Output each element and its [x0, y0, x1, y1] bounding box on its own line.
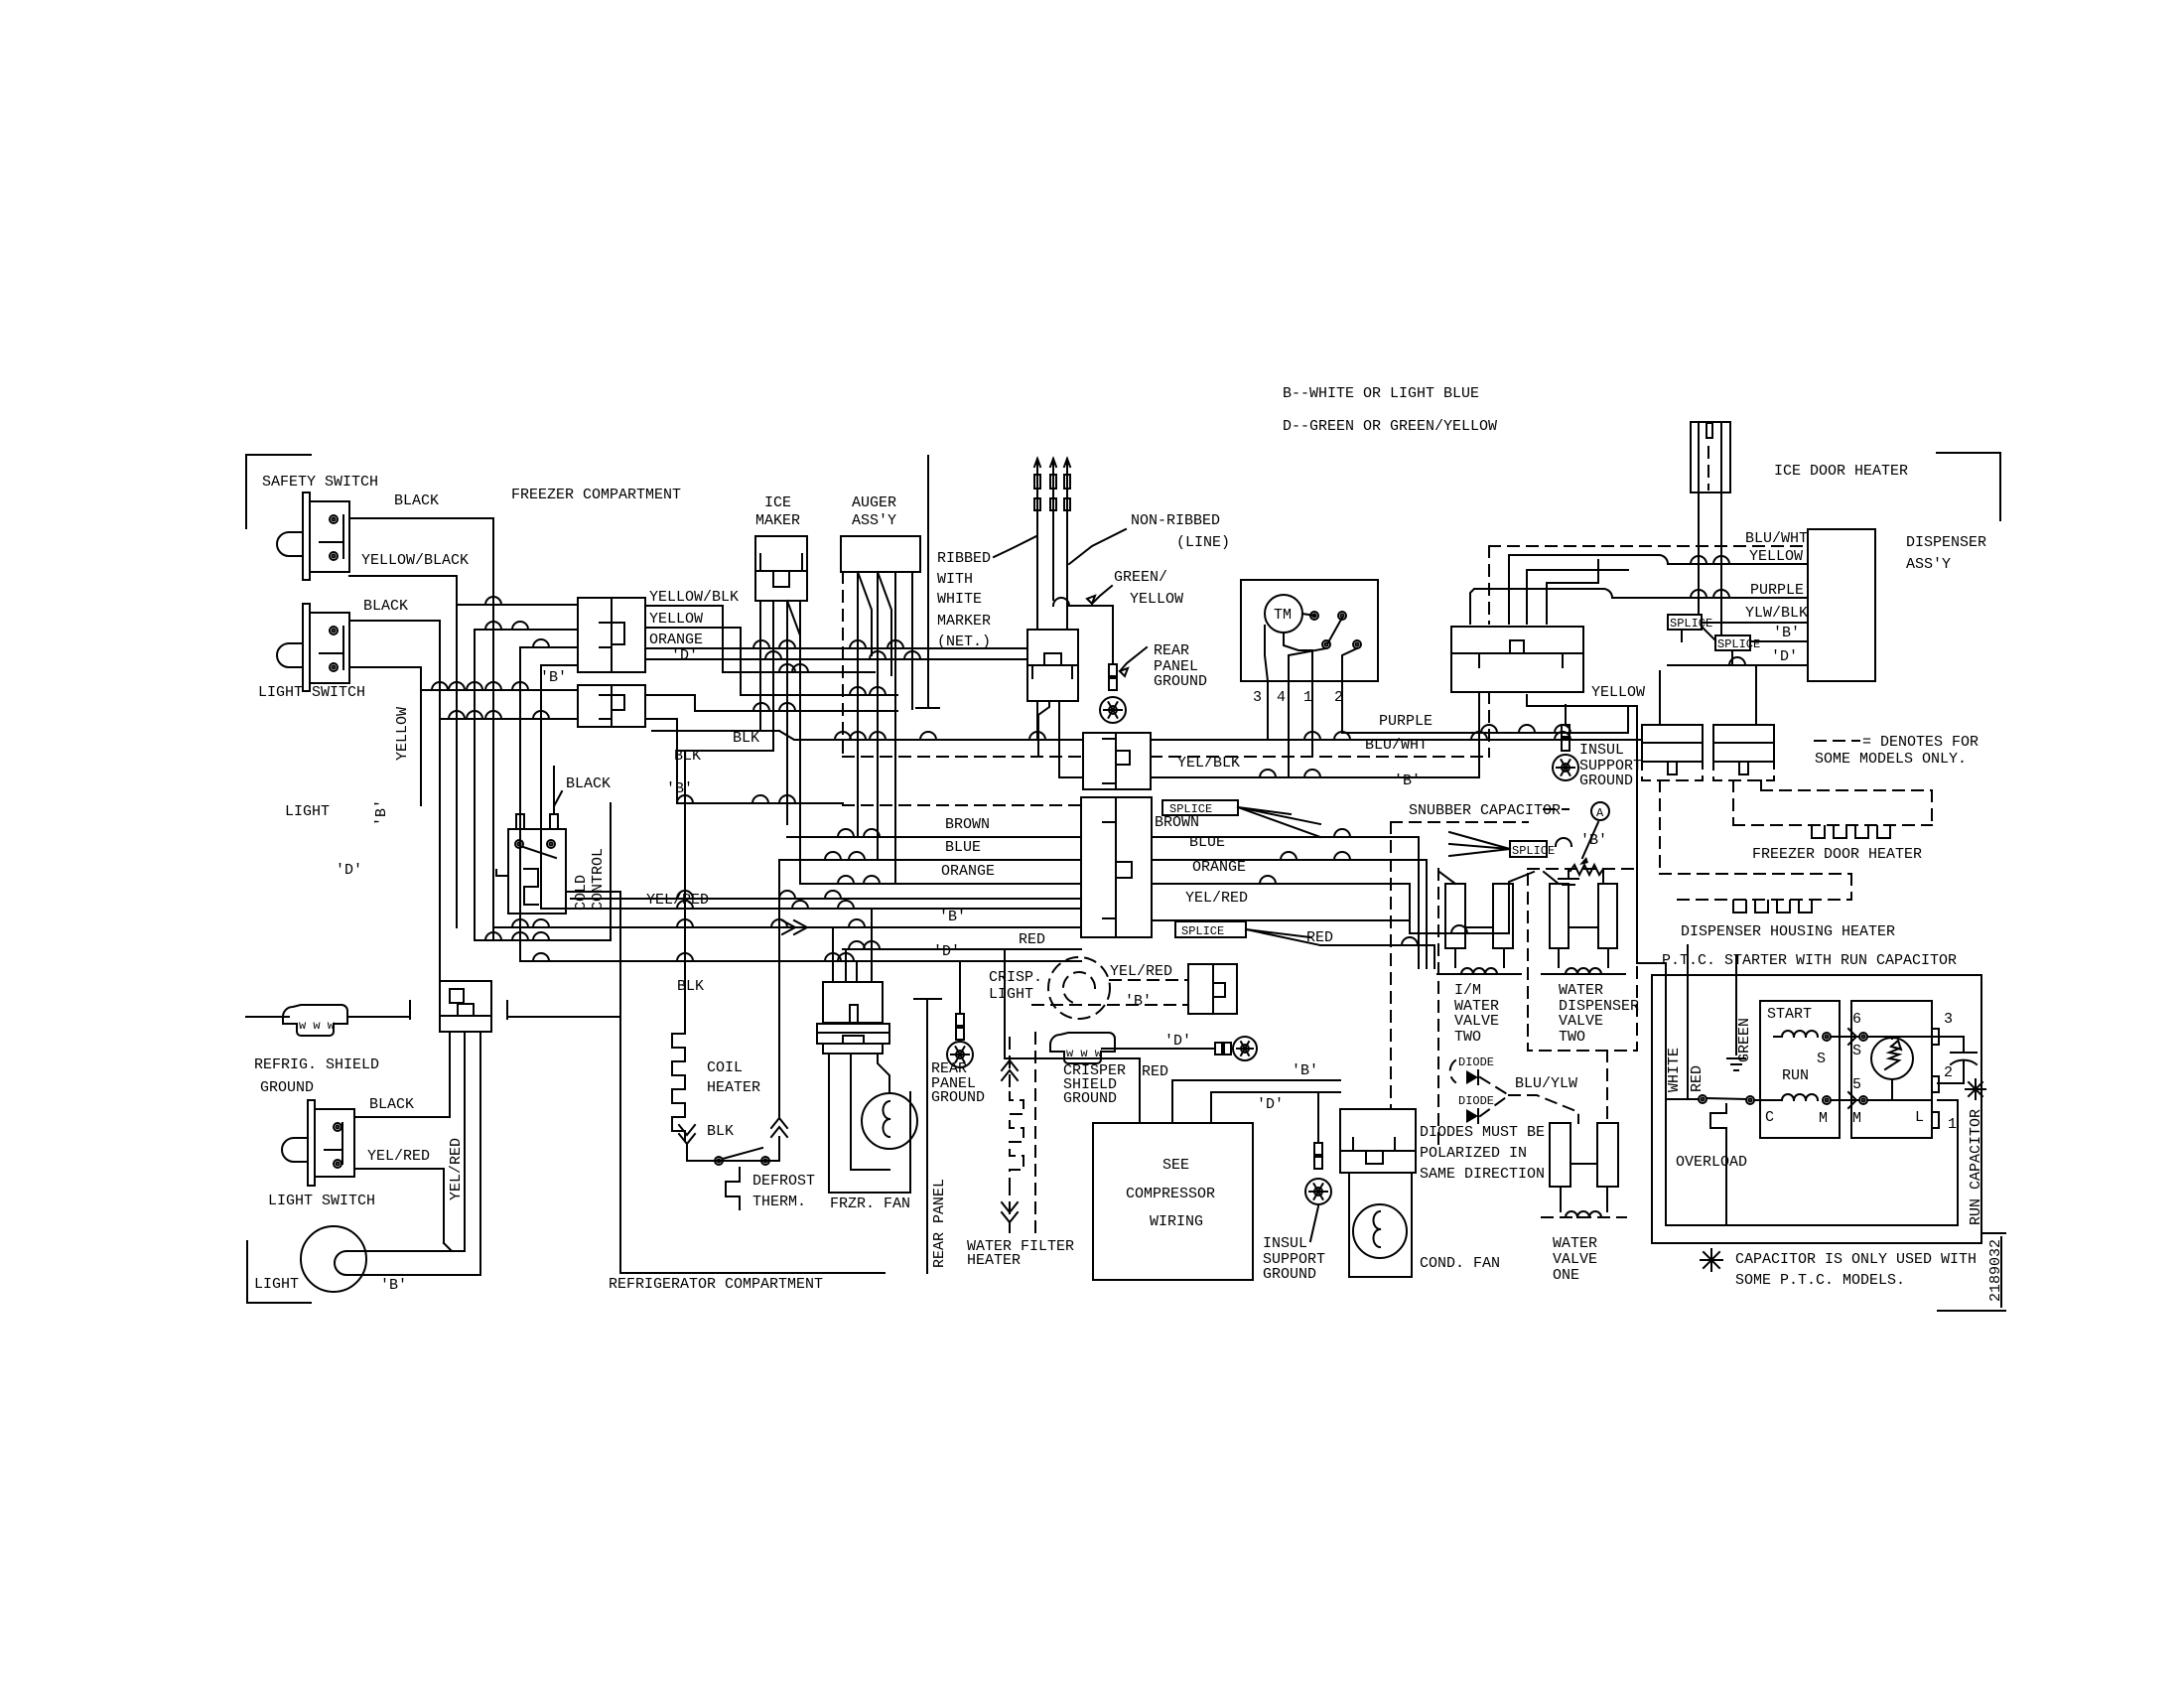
svg-text:P.T.C. STARTER WITH RUN CAPACI: P.T.C. STARTER WITH RUN CAPACITOR — [1662, 952, 1957, 969]
svg-text:DEFROST: DEFROST — [752, 1173, 815, 1190]
label YELLOW mid — [1591, 684, 1645, 701]
wire BLU/WHT dispenser — [1489, 530, 1808, 547]
svg-text:PURPLE: PURPLE — [1750, 582, 1804, 599]
label SAFETY SWITCH — [262, 474, 378, 491]
comp motor box — [1760, 1001, 1840, 1138]
compressor box — [1093, 1123, 1253, 1280]
svg-text:GROUND: GROUND — [260, 1079, 314, 1096]
svg-text:3: 3 — [1944, 1011, 1953, 1028]
svg-text:RIBBED: RIBBED — [937, 550, 991, 567]
svg-text:MARKER: MARKER — [937, 613, 991, 630]
svg-text:ORANGE: ORANGE — [1192, 859, 1246, 876]
label BLACK cold control — [554, 775, 611, 814]
svg-text:'B': 'B' — [1125, 993, 1152, 1010]
timer motor circle — [1265, 595, 1302, 633]
svg-text:TWO: TWO — [1454, 1029, 1481, 1046]
svg-text:BLU/WHT: BLU/WHT — [1745, 530, 1808, 547]
svg-text:DISPENSER: DISPENSER — [1906, 534, 1986, 551]
svg-text:'B': 'B' — [1394, 773, 1421, 789]
wire ORANGE right — [1152, 876, 1410, 933]
svg-text:PURPLE: PURPLE — [1379, 713, 1433, 730]
svg-text:FREEZER DOOR HEATER: FREEZER DOOR HEATER — [1752, 846, 1922, 863]
svg-text:NON-RIBBED: NON-RIBBED — [1131, 512, 1220, 529]
svg-text:DIODE: DIODE — [1458, 1094, 1494, 1108]
svg-text:WATER: WATER — [1553, 1235, 1597, 1252]
svg-text:BLK: BLK — [677, 978, 704, 995]
splice mid fan — [1449, 832, 1510, 856]
svg-text:YEL/RED: YEL/RED — [1185, 890, 1248, 907]
dashed wd valve down — [1606, 1051, 1608, 1123]
svg-text:YELLOW: YELLOW — [1121, 591, 1183, 608]
wire YELLOW mid — [1527, 695, 1666, 975]
label OVERLOAD — [1676, 1154, 1747, 1171]
label LIGHT — [285, 803, 330, 820]
wire BROWN right — [1152, 829, 1419, 968]
wire BLUE right — [1152, 852, 1427, 968]
svg-text:LIGHT SWITCH: LIGHT SWITCH — [268, 1193, 375, 1209]
svg-text:YEL/RED: YEL/RED — [448, 1138, 465, 1200]
svg-text:LIGHT SWITCH: LIGHT SWITCH — [258, 684, 365, 701]
wire purple row — [1342, 706, 1628, 733]
tall vertical wire — [916, 456, 939, 708]
svg-text:SNUBBER CAPACITOR: SNUBBER CAPACITOR — [1409, 802, 1561, 819]
splice box 1 — [1162, 800, 1238, 816]
svg-text:DISPENSER HOUSING HEATER: DISPENSER HOUSING HEATER — [1681, 923, 1895, 940]
svg-text:YELLOW: YELLOW — [1591, 684, 1645, 701]
svg-text:BLACK: BLACK — [394, 492, 439, 509]
cold control internals — [496, 840, 556, 905]
svg-text:FREEZER COMPARTMENT: FREEZER COMPARTMENT — [511, 487, 681, 503]
vertical bundle left — [457, 518, 541, 961]
coil heater element — [672, 1020, 685, 1141]
labels 3 2 1 — [1944, 1011, 1957, 1133]
label LIGHT SWITCH — [258, 684, 365, 701]
harness connector B — [1081, 797, 1152, 937]
svg-text:GROUND: GROUND — [1154, 673, 1207, 690]
svg-text:w w w: w w w — [299, 1019, 336, 1033]
svg-text:B--WHITE OR LIGHT BLUE: B--WHITE OR LIGHT BLUE — [1283, 385, 1479, 402]
label NON-RIBBED LINE — [1131, 512, 1230, 551]
compressor wires — [1005, 949, 1340, 1123]
wire YLW/BLK dispenser — [1702, 605, 1808, 623]
wire d right — [645, 651, 1027, 659]
wire row B y809 — [677, 795, 1081, 805]
wire row y695 — [421, 682, 578, 690]
label RED vertical — [1689, 1065, 1706, 1092]
svg-text:WITH: WITH — [937, 571, 973, 588]
svg-text:MAKER: MAKER — [755, 512, 800, 529]
label BLK bus — [674, 748, 701, 765]
label DISPENSER ASSY — [1906, 534, 1986, 573]
leader rear panel ground — [1120, 647, 1147, 676]
svg-text:'B': 'B' — [380, 1277, 407, 1294]
label FRZR FAN — [830, 1196, 910, 1212]
svg-text:'B': 'B' — [1773, 625, 1800, 641]
label WATER FILTER HEATER — [967, 1238, 1074, 1269]
label RIBBED WITH WHITE MARKER NET — [937, 550, 991, 650]
wire D dispenser — [1668, 648, 1808, 665]
freezer door heater dashes — [1733, 780, 1932, 825]
label BROWN left — [945, 816, 990, 833]
label REAR PANEL vertical — [931, 1179, 948, 1268]
ice maker wires down — [760, 601, 800, 884]
svg-text:2: 2 — [1944, 1064, 1953, 1081]
svg-text:ONE: ONE — [1553, 1267, 1579, 1284]
dispenser assy box — [1808, 529, 1875, 681]
svg-text:ORANGE: ORANGE — [941, 863, 995, 880]
crisper light circle — [1048, 957, 1110, 1019]
crisper lug — [1233, 1037, 1257, 1060]
svg-text:RED: RED — [1142, 1063, 1168, 1080]
svg-text:'B': 'B' — [373, 799, 390, 826]
label YEL/RED left — [646, 892, 709, 909]
label BLUE right — [1189, 834, 1225, 851]
label REAR PANEL GROUND2 — [931, 1060, 985, 1106]
label LIGHT bottom — [254, 1276, 299, 1293]
start wire right — [1848, 1029, 1938, 1045]
line cord wires down — [1037, 701, 1059, 777]
label FREEZER COMPARTMENT — [511, 487, 681, 503]
label BLACK S3 — [369, 1096, 414, 1113]
asterisk run cap — [1966, 1079, 1985, 1099]
svg-text:M: M — [1852, 1110, 1861, 1127]
svg-text:ICE DOOR HEATER: ICE DOOR HEATER — [1774, 463, 1908, 480]
label BLU/YLW — [1515, 1075, 1577, 1092]
label WATER VALVE ONE — [1553, 1235, 1597, 1284]
wire light B — [360, 1251, 480, 1275]
defrost up arrow — [771, 860, 787, 1161]
timer box TM — [1241, 580, 1378, 681]
label CRISP LIGHT — [989, 969, 1042, 1003]
label YELLOW vertical — [394, 707, 411, 761]
ptc tabs — [1932, 1029, 1939, 1128]
svg-text:RUN: RUN — [1782, 1067, 1809, 1084]
wires into ptc top — [1688, 945, 1736, 975]
wire BLACK from S1 — [349, 518, 493, 740]
connector pair left — [1642, 725, 1703, 774]
svg-text:AUGER: AUGER — [852, 494, 896, 511]
svg-text:S: S — [1817, 1051, 1826, 1067]
branch connector low — [440, 981, 491, 1032]
label BLUE left — [945, 839, 981, 856]
wire row dashed y762 — [843, 756, 1489, 758]
svg-text:RED: RED — [1689, 1065, 1706, 1092]
label note D — [1283, 418, 1497, 435]
timer pin wires — [1268, 681, 1342, 777]
dispenser housing heater dashes — [1660, 780, 1851, 900]
svg-text:5: 5 — [1852, 1076, 1861, 1093]
svg-text:SAFETY SWITCH: SAFETY SWITCH — [262, 474, 378, 491]
label B quote center — [540, 669, 567, 686]
wire BLACK S3 — [354, 1116, 450, 1118]
corner bracket bottom left — [247, 1241, 311, 1303]
wire crisper D — [1102, 1033, 1215, 1050]
light switch S3 — [282, 1100, 354, 1186]
label BROWN right — [1155, 814, 1199, 831]
svg-text:WHITE: WHITE — [1666, 1048, 1683, 1092]
svg-text:BLACK: BLACK — [566, 775, 611, 792]
svg-text:SPLICE: SPLICE — [1181, 924, 1224, 938]
diode dashed wires — [1480, 1077, 1578, 1123]
im water valve — [1437, 872, 1521, 974]
label INSUL SUPPORT GROUND right — [1579, 742, 1642, 789]
wire coil heater top — [684, 751, 686, 1020]
label D row — [933, 943, 960, 960]
plug wires down — [1699, 492, 1721, 635]
wire row BROWN — [787, 829, 1081, 837]
svg-text:LIGHT: LIGHT — [254, 1276, 299, 1293]
svg-text:HEATER: HEATER — [967, 1252, 1021, 1269]
svg-text:YEL/RED: YEL/RED — [646, 892, 709, 909]
svg-text:ICE: ICE — [764, 494, 791, 511]
dispenser housing heater element — [1733, 901, 1812, 913]
svg-text:BLK: BLK — [674, 748, 701, 765]
label YEL/RED S3 — [367, 1148, 430, 1165]
label 2189032 vertical — [1987, 1239, 2004, 1302]
frzr fan housing — [829, 1054, 910, 1193]
svg-text:'D': 'D' — [1257, 1096, 1284, 1113]
label BLACK S2 — [363, 598, 408, 615]
svg-text:YELLOW: YELLOW — [394, 707, 411, 761]
wire crisp dashed — [1032, 980, 1188, 1010]
ptc labels S M C L — [1765, 1043, 1924, 1127]
wire red — [1687, 975, 1689, 1099]
wire row y652 — [520, 632, 703, 648]
frzr fan motor — [862, 1093, 917, 1149]
svg-text:= DENOTES FOR: = DENOTES FOR — [1862, 734, 1979, 751]
svg-text:INSUL: INSUL — [1263, 1235, 1307, 1252]
label DENOTES — [1815, 734, 1979, 768]
green ground symbol — [1727, 1058, 1745, 1070]
svg-text:'B': 'B' — [1580, 832, 1607, 849]
mid connector ladder wires — [1470, 555, 1808, 624]
svg-text:VALVE: VALVE — [1454, 1013, 1499, 1030]
wire B dispenser — [1750, 625, 1808, 641]
svg-text:GROUND: GROUND — [1063, 1090, 1117, 1107]
wire row ORANGE — [800, 876, 1081, 884]
crisp connector — [1188, 964, 1237, 1014]
label D quote — [336, 862, 362, 879]
svg-text:YELLOW/BLK: YELLOW/BLK — [649, 589, 739, 606]
label B quote bus — [1394, 773, 1421, 789]
rear panel line — [914, 999, 941, 1273]
svg-text:SPLICE: SPLICE — [1512, 844, 1555, 858]
svg-text:BLACK: BLACK — [363, 598, 408, 615]
label REFRIG SHIELD GROUND — [254, 1056, 379, 1096]
svg-text:REAR PANEL: REAR PANEL — [931, 1179, 948, 1268]
svg-text:YEL/RED: YEL/RED — [367, 1148, 430, 1165]
svg-text:REFRIGERATOR COMPARTMENT: REFRIGERATOR COMPARTMENT — [609, 1276, 823, 1293]
svg-text:BLU/YLW: BLU/YLW — [1515, 1075, 1577, 1092]
wire overload bottom — [1666, 1099, 1958, 1225]
splice fan 1 — [1238, 807, 1320, 837]
splice box 2 — [1175, 921, 1246, 938]
svg-text:BROWN: BROWN — [1155, 814, 1199, 831]
water filter heater dashed — [1002, 1033, 1035, 1237]
branch connector low wires — [450, 1032, 480, 1267]
wire row y724 — [440, 711, 578, 719]
svg-text:'D': 'D' — [336, 862, 362, 879]
light bulb circle — [301, 1226, 366, 1292]
svg-text:'B': 'B' — [939, 909, 966, 925]
svg-text:S: S — [1852, 1043, 1861, 1059]
svg-text:BLK: BLK — [733, 730, 759, 747]
svg-text:CONTROL: CONTROL — [590, 848, 607, 911]
svg-text:REAR: REAR — [1154, 642, 1189, 659]
svg-text:YELLOW: YELLOW — [1749, 548, 1803, 565]
svg-text:A: A — [1596, 806, 1604, 820]
svg-text:GROUND: GROUND — [1263, 1266, 1316, 1283]
svg-text:WIRING: WIRING — [1150, 1213, 1203, 1230]
label PTC STARTER WITH RUN CAPACITOR — [1662, 952, 1957, 969]
line cord connector — [1027, 630, 1078, 701]
label ICE MAKER — [755, 494, 800, 529]
wire row BLUE — [779, 852, 1081, 860]
harness connector mid — [1451, 627, 1583, 692]
svg-text:TM: TM — [1274, 607, 1292, 624]
label PURPLE dispenser — [1691, 582, 1804, 599]
insul support ground right lug — [1553, 755, 1578, 780]
svg-text:VALVE: VALVE — [1553, 1251, 1597, 1268]
svg-text:THERM.: THERM. — [752, 1194, 806, 1210]
svg-text:D--GREEN OR GREEN/YELLOW: D--GREEN OR GREEN/YELLOW — [1283, 418, 1497, 435]
wire white — [1666, 975, 1699, 1099]
wire row RED y956 — [843, 941, 1081, 949]
power cord middle line — [1050, 459, 1056, 600]
rear panel ground2 lug — [947, 961, 973, 1067]
dashed vertical long — [1390, 822, 1392, 1108]
label CRISPER SHIELD GROUND — [1063, 1062, 1126, 1107]
svg-text:YELLOW/BLACK: YELLOW/BLACK — [361, 552, 469, 569]
label BLACK — [394, 492, 439, 509]
coil heater arrow — [679, 1123, 734, 1144]
water valve one — [1542, 1123, 1626, 1217]
upper branch connector — [578, 598, 645, 672]
label B bottom — [380, 1277, 407, 1294]
label B quote vertical — [373, 799, 390, 826]
label YEL/RED vertical — [448, 1138, 465, 1200]
label COLD CONTROL vertical — [573, 848, 607, 911]
run capacitor — [1938, 1037, 1977, 1083]
wire green-yellow — [1053, 598, 1113, 664]
svg-text:YEL/RED: YEL/RED — [1110, 963, 1172, 980]
label INSUL SUPPORT GROUND2 — [1263, 1206, 1325, 1283]
label SEE COMPRESSOR WIRING — [1126, 1157, 1215, 1230]
wire RED right — [1306, 929, 1434, 968]
snubber leader — [1544, 802, 1609, 820]
refrig compartment boundary — [620, 892, 885, 1273]
cond fan motor — [1353, 1204, 1407, 1258]
wire row BLK y741 — [652, 730, 1083, 747]
label I/M WATER VALVE TWO — [1454, 982, 1499, 1046]
splice mid box — [1510, 841, 1555, 858]
wire YEL/RED S3 — [354, 1169, 465, 1251]
svg-text:GREEN/: GREEN/ — [1114, 569, 1167, 586]
svg-text:RUN CAPACITOR: RUN CAPACITOR — [1968, 1109, 1984, 1225]
svg-text:BLACK: BLACK — [369, 1096, 414, 1113]
water dispenser valve — [1542, 872, 1625, 974]
label COIL HEATER — [707, 1059, 760, 1096]
svg-text:CRISP.: CRISP. — [989, 969, 1042, 986]
auger wires down — [843, 572, 912, 884]
leader ribbed — [994, 536, 1036, 557]
label B right of splice — [1556, 832, 1607, 849]
label B compressor — [1292, 1062, 1318, 1079]
label BLU/WHT bus — [1365, 737, 1428, 754]
overload element — [1710, 1104, 1726, 1144]
wire lower conn right2 — [645, 719, 773, 803]
label YEL/RED crisp — [1110, 963, 1172, 980]
wire blu-wht dashed vertical — [1488, 546, 1490, 757]
label PURPLE bus — [1379, 713, 1433, 730]
label WATER DISPENSER VALVE TWO — [1559, 982, 1639, 1046]
rear panel ground stem — [1109, 664, 1117, 690]
defrost circuit — [687, 1144, 779, 1209]
ptc starter box — [1851, 1001, 1932, 1138]
rear panel ground lug — [1100, 697, 1126, 723]
label ORANGE right — [1192, 859, 1246, 876]
timer pin numbers — [1253, 689, 1343, 706]
label COND FAN — [1420, 1255, 1500, 1272]
insul support ground2 stem — [1314, 1143, 1322, 1169]
svg-text:OVERLOAD: OVERLOAD — [1676, 1154, 1747, 1171]
connector pair right — [1713, 725, 1774, 774]
svg-text:SOME P.T.C. MODELS.: SOME P.T.C. MODELS. — [1735, 1272, 1905, 1289]
svg-text:WHITE: WHITE — [937, 591, 982, 608]
overload screws — [1699, 1095, 1754, 1104]
wire row B y934 — [493, 919, 1081, 927]
svg-text:BROWN: BROWN — [945, 816, 990, 833]
svg-text:HEATER: HEATER — [707, 1079, 760, 1096]
timer contacts — [1265, 612, 1361, 681]
svg-text:C: C — [1765, 1109, 1774, 1126]
label YELLOW dispenser — [1691, 548, 1803, 565]
svg-text:CAPACITOR IS ONLY USED WITH: CAPACITOR IS ONLY USED WITH — [1735, 1251, 1977, 1268]
ptc circle — [1871, 1037, 1913, 1100]
label REAR PANEL GROUND — [1154, 642, 1207, 690]
label DISPENSER HOUSING HEATER — [1681, 923, 1895, 940]
break arrow — [782, 920, 807, 934]
svg-text:M: M — [1819, 1110, 1828, 1127]
svg-text:DIODE: DIODE — [1458, 1055, 1494, 1069]
svg-text:SPLICE: SPLICE — [1670, 617, 1712, 631]
ice maker connector — [755, 536, 807, 601]
ptc outer box — [1652, 975, 1981, 1243]
label FREEZER DOOR HEATER — [1752, 846, 1922, 863]
svg-text:ORANGE: ORANGE — [649, 632, 703, 648]
svg-text:I/M: I/M — [1454, 982, 1481, 999]
svg-text:COMPRESSOR: COMPRESSOR — [1126, 1186, 1215, 1202]
start coil — [1774, 1031, 1867, 1041]
label CAPACITOR note — [1701, 1249, 1977, 1289]
label B row — [939, 909, 966, 925]
label ORANGE left — [941, 863, 995, 880]
wire YEL/RED right — [1152, 872, 1534, 933]
svg-text:GROUND: GROUND — [931, 1089, 985, 1106]
svg-text:WATER: WATER — [1559, 982, 1603, 999]
wire row y634 — [475, 611, 703, 630]
svg-text:COIL: COIL — [707, 1059, 743, 1076]
svg-text:BLUE: BLUE — [945, 839, 981, 856]
ground bus line — [246, 1001, 620, 1019]
wire yellow-blk right — [645, 606, 875, 672]
snubber capacitor — [1559, 822, 1603, 885]
svg-text:BLK: BLK — [707, 1123, 734, 1140]
svg-text:INSUL: INSUL — [1579, 742, 1624, 759]
wire row y905 — [571, 891, 1081, 899]
insul support ground2 lug — [1305, 1179, 1331, 1204]
svg-text:START: START — [1767, 1006, 1812, 1023]
